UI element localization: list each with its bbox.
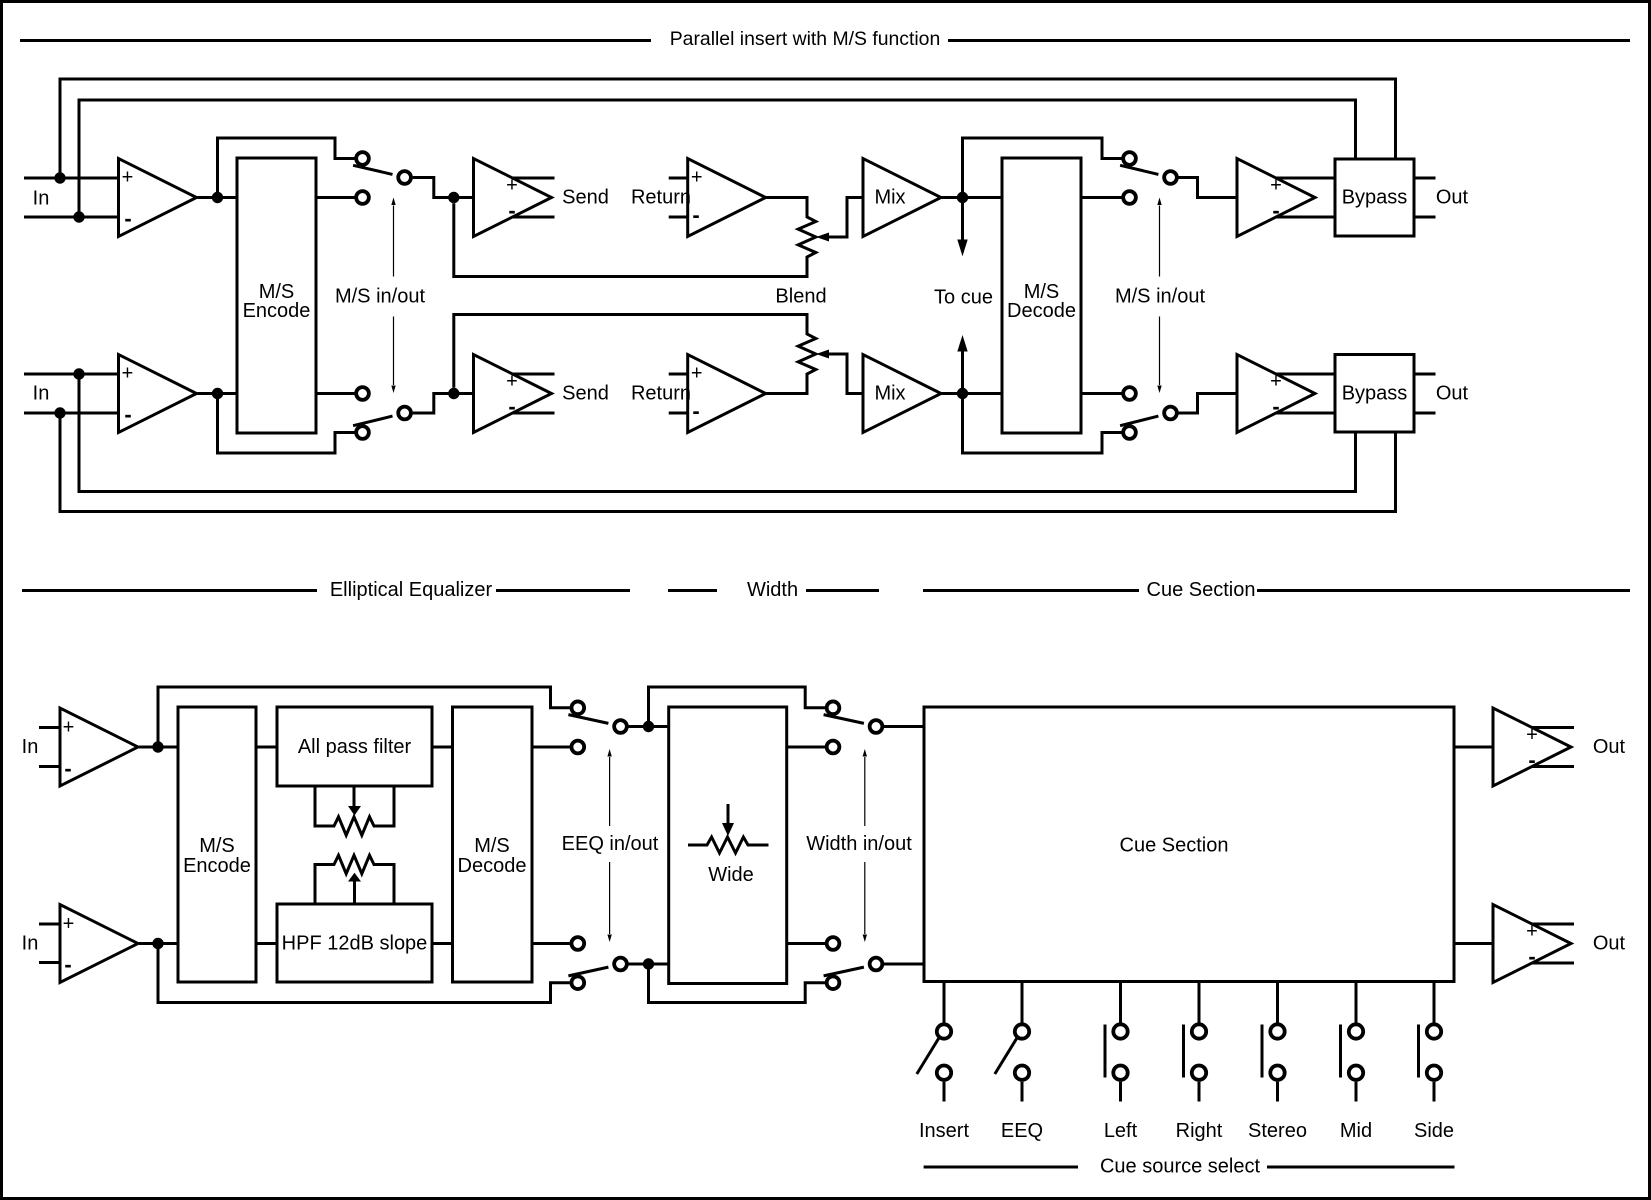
wire: encode out R to switch <box>316 392 355 395</box>
potentiometer P4: HPF feedback <box>315 855 394 904</box>
svg-text:-: - <box>1272 394 1279 419</box>
switch SW14: cue source Mid <box>1355 982 1358 1023</box>
wire: encode out L to switch <box>316 196 355 199</box>
svg-text:M/S: M/S <box>474 835 510 857</box>
wire: B8 out top to switch <box>532 746 570 749</box>
block B4: Bypass (R) <box>1335 355 1414 433</box>
junction: Send R input node <box>448 388 459 399</box>
op-amp U3 (Send L) <box>474 159 552 237</box>
switch SW7: Width in/out (top) <box>827 701 840 714</box>
potentiometer P2: Blend (R) <box>454 315 816 394</box>
svg-text:Return: Return <box>631 187 691 209</box>
wire: top inner feedback (In L - to Bypass L) <box>79 100 1356 217</box>
junction: EEQ top node <box>643 721 654 732</box>
svg-text:Bypass: Bypass <box>1342 383 1408 405</box>
wire: ch L encode bypass loop <box>218 138 355 198</box>
wire: ch R decode bypass loop <box>963 394 1122 454</box>
svg-text:+: + <box>63 717 75 739</box>
wire: Bypass R out stubs <box>1414 373 1436 376</box>
svg-text:Out: Out <box>1593 736 1626 758</box>
op-amp U2 (In R buffer) <box>119 355 197 433</box>
svg-text:M/S in/out: M/S in/out <box>1115 286 1205 308</box>
op-amp U12 (In S) <box>39 923 60 926</box>
svg-text:Width: Width <box>747 579 798 601</box>
svg-text:+: + <box>506 371 518 393</box>
wire: width bypass loop bottom <box>649 964 826 1003</box>
junction: U11 output <box>152 741 163 752</box>
svg-text:In: In <box>33 188 50 210</box>
op-amp U14 (Out bottom) <box>1493 905 1571 983</box>
junction: Send L input node <box>448 192 459 203</box>
potentiometer P3: all-pass feedback <box>315 786 394 835</box>
wire: EEQ bypass loop bottom <box>158 944 570 1003</box>
svg-text:+: + <box>122 167 134 189</box>
label EEQ in/out <box>609 757 611 934</box>
wiper arrow P2 <box>816 350 829 359</box>
block B1: M/S Encode <box>237 158 316 433</box>
svg-text:Out: Out <box>1436 187 1469 209</box>
wire: In R - input <box>24 412 119 415</box>
wire: SW5 pole to Wide box <box>629 725 669 728</box>
svg-text:+: + <box>506 175 518 197</box>
svg-text:-: - <box>1528 748 1535 773</box>
svg-text:-: - <box>692 399 699 424</box>
svg-text:+: + <box>1270 175 1282 197</box>
svg-text:-: - <box>1272 198 1279 223</box>
junction: In L + <box>54 172 65 183</box>
svg-text:-: - <box>64 756 71 781</box>
wire: SW1 pole to Send L <box>413 178 474 198</box>
svg-text:Encode: Encode <box>243 300 311 322</box>
svg-text:Stereo: Stereo <box>1248 1120 1307 1142</box>
op-amp U4 (Send R) <box>474 355 552 433</box>
wire: B5 to All pass filter <box>256 746 277 749</box>
wire: All pass to B8 <box>432 746 453 749</box>
block B9: Wide <box>669 707 787 984</box>
svg-text:EEQ: EEQ <box>1001 1120 1043 1142</box>
arrow: to cue (L) <box>961 198 964 242</box>
wire: Cue out top <box>1454 746 1493 749</box>
svg-text:Mix: Mix <box>874 383 905 405</box>
svg-text:In: In <box>22 933 39 955</box>
switch SW15: cue source Side <box>1433 982 1436 1023</box>
header: Cue Section <box>923 589 1139 592</box>
svg-text:Elliptical Equalizer: Elliptical Equalizer <box>330 579 493 601</box>
svg-text:Decode: Decode <box>1007 300 1076 322</box>
wire: Cue out bottom <box>1454 942 1493 945</box>
wire: Bypass L out stubs <box>1414 177 1436 180</box>
wire: B5 to HPF <box>256 942 277 945</box>
op-amp U6 (Return R) <box>669 373 688 376</box>
arrow: to cue (R) <box>961 350 964 394</box>
op-amp U7 (Mix L) <box>863 159 941 237</box>
switch SW2: M/S in/out (R) <box>356 426 369 439</box>
wire: U1 out to M/S Encode <box>198 196 238 199</box>
svg-text:Send: Send <box>562 187 609 209</box>
switch SW3: M/S in/out right (L) <box>1123 152 1136 165</box>
wire: width bypass loop top <box>649 687 826 727</box>
svg-text:Cue Section: Cue Section <box>1147 579 1256 601</box>
wiper arrow P1 <box>816 233 829 242</box>
wire: U2 out to M/S Encode <box>198 392 238 395</box>
svg-text:Width in/out: Width in/out <box>806 833 912 855</box>
switch SW9: cue source Insert <box>943 982 946 1023</box>
svg-text:Out: Out <box>1436 383 1469 405</box>
svg-text:All pass filter: All pass filter <box>298 736 412 758</box>
block B6: All pass filter <box>277 707 432 786</box>
header: Elliptical Equalizer <box>22 589 317 592</box>
switch SW4: M/S in/out right (R) <box>1123 426 1136 439</box>
wiper arrow P3 <box>353 786 356 807</box>
svg-text:-: - <box>692 203 699 228</box>
switch SW10: cue source EEQ <box>1021 982 1024 1023</box>
svg-text:To cue: To cue <box>934 287 993 309</box>
svg-text:+: + <box>63 913 75 935</box>
block B5: M/S Encode (EQ) <box>178 707 256 982</box>
junction: In L - <box>73 211 84 222</box>
label M/S in/out (left) <box>393 206 395 386</box>
wire: U12 out <box>139 942 178 945</box>
junction: U2 output <box>212 388 223 399</box>
svg-text:Mid: Mid <box>1340 1120 1372 1142</box>
svg-text:Decode: Decode <box>458 855 527 877</box>
junction: U12 output <box>152 938 163 949</box>
label Width in/out <box>864 757 866 934</box>
label Cue source select <box>924 1166 1078 1169</box>
svg-text:EEQ in/out: EEQ in/out <box>562 833 659 855</box>
svg-text:Right: Right <box>1176 1120 1223 1142</box>
svg-text:+: + <box>691 167 703 189</box>
svg-text:Send: Send <box>562 383 609 405</box>
wire: ch R encode bypass loop <box>218 394 355 454</box>
potentiometer P5: Wide <box>688 837 769 853</box>
switch SW12: cue source Right <box>1198 982 1201 1023</box>
potentiometer P1: Blend (L) <box>454 198 816 277</box>
block B8: M/S Decode (EQ) <box>453 707 533 982</box>
op-amp U5 (Return L) <box>669 177 688 180</box>
op-amp U13 (Out top) <box>1493 708 1571 786</box>
svg-text:-: - <box>64 952 71 977</box>
wire: SW4 pole to U10 <box>1179 394 1238 414</box>
op-amp U10 (Out R) <box>1237 355 1315 433</box>
svg-text:Side: Side <box>1414 1120 1454 1142</box>
wire: In L - input <box>24 216 119 219</box>
svg-text:-: - <box>508 394 515 419</box>
op-amp U9 (Out L) <box>1237 159 1315 237</box>
wire: HPF to B8 <box>432 942 453 945</box>
svg-text:HPF 12dB slope: HPF 12dB slope <box>282 933 428 955</box>
switch SW11: cue source Left <box>1119 982 1122 1023</box>
wire: ch L decode bypass loop <box>963 138 1122 198</box>
junction: U1 output <box>212 192 223 203</box>
label M/S in/out (right) <box>1159 206 1161 386</box>
svg-text:+: + <box>691 363 703 385</box>
wire: SW6 pole to Wide box <box>629 963 669 966</box>
svg-text:Cue source select: Cue source select <box>1100 1156 1261 1178</box>
svg-text:M/S: M/S <box>199 835 235 857</box>
switch SW13: cue source Stereo <box>1276 982 1279 1023</box>
svg-text:Cue Section: Cue Section <box>1120 835 1229 857</box>
svg-text:Out: Out <box>1593 933 1626 955</box>
wire: Wide out top to switch <box>787 746 825 749</box>
junction: Mix L output <box>957 192 968 203</box>
wire: decode out L to switch <box>1081 196 1122 199</box>
svg-text:+: + <box>122 363 134 385</box>
wire: bottom inner feedback (In R + to Bypass R) <box>79 374 1356 492</box>
svg-text:Left: Left <box>1104 1120 1138 1142</box>
svg-text:+: + <box>1526 921 1538 943</box>
switch SW5: EEQ in/out (top) <box>571 701 584 714</box>
svg-text:Encode: Encode <box>183 855 251 877</box>
junction: Mix R output <box>957 388 968 399</box>
svg-text:-: - <box>1528 944 1535 969</box>
wire: In R + input <box>24 373 119 376</box>
svg-text:-: - <box>124 402 131 427</box>
svg-text:Blend: Blend <box>775 286 826 308</box>
svg-text:M/S in/out: M/S in/out <box>335 286 425 308</box>
op-amp U11 (In M) <box>39 726 60 729</box>
switch SW6: EEQ in/out (bottom) <box>571 976 584 989</box>
wire: SW2 pole to Send R <box>413 394 474 414</box>
wire: EEQ bypass loop top <box>158 687 570 747</box>
switch SW8: Width in/out (bottom) <box>827 976 840 989</box>
svg-text:-: - <box>124 206 131 231</box>
svg-text:Return: Return <box>631 383 691 405</box>
svg-text:+: + <box>1270 371 1282 393</box>
svg-text:In: In <box>22 736 39 758</box>
svg-text:Wide: Wide <box>708 864 754 886</box>
block B3: Bypass (L) <box>1335 159 1414 236</box>
wire: SW3 pole to U9 <box>1179 178 1238 198</box>
wire: Mix R out to M/S Decode <box>941 392 1002 395</box>
header: Width <box>668 589 717 592</box>
svg-text:Parallel insert with M/S funct: Parallel insert with M/S function <box>670 28 941 50</box>
title: Parallel insert with M/S function <box>20 39 651 42</box>
wire: decode out R to switch <box>1081 392 1122 395</box>
wiper arrow P4 <box>353 881 356 904</box>
svg-text:Bypass: Bypass <box>1342 187 1408 209</box>
junction: In R - <box>54 407 65 418</box>
wire: In L + input <box>24 177 119 180</box>
wire: top outer feedback (In L + to Bypass L) <box>60 79 1396 178</box>
wire: Mix L out to M/S Decode <box>941 196 1002 199</box>
wire: U11 out <box>139 746 178 749</box>
op-amp U8 (Mix R) <box>863 355 941 433</box>
wire: B8 out bottom to switch <box>532 942 570 945</box>
wire: SW8 pole to Cue Section <box>884 963 924 966</box>
block B10: Cue Section <box>924 707 1454 982</box>
wiper arrow P5 <box>727 804 730 824</box>
block B2: M/S Decode <box>1002 158 1081 433</box>
wire: SW7 pole to Cue Section <box>884 725 924 728</box>
svg-text:In: In <box>33 383 50 405</box>
svg-text:Mix: Mix <box>874 187 905 209</box>
op-amp U1 (In L buffer) <box>119 159 197 237</box>
wire: Wide out bottom to switch <box>787 942 825 945</box>
svg-text:-: - <box>508 198 515 223</box>
switch SW1: M/S in/out (L) <box>356 152 369 165</box>
svg-text:+: + <box>1526 724 1538 746</box>
svg-text:Insert: Insert <box>919 1120 969 1142</box>
wire: bottom outer feedback (In R - to Bypass R) <box>60 413 1396 512</box>
junction: In R + <box>73 368 84 379</box>
block B7: HPF 12dB slope <box>277 904 432 982</box>
junction: EEQ bottom node <box>643 958 654 969</box>
